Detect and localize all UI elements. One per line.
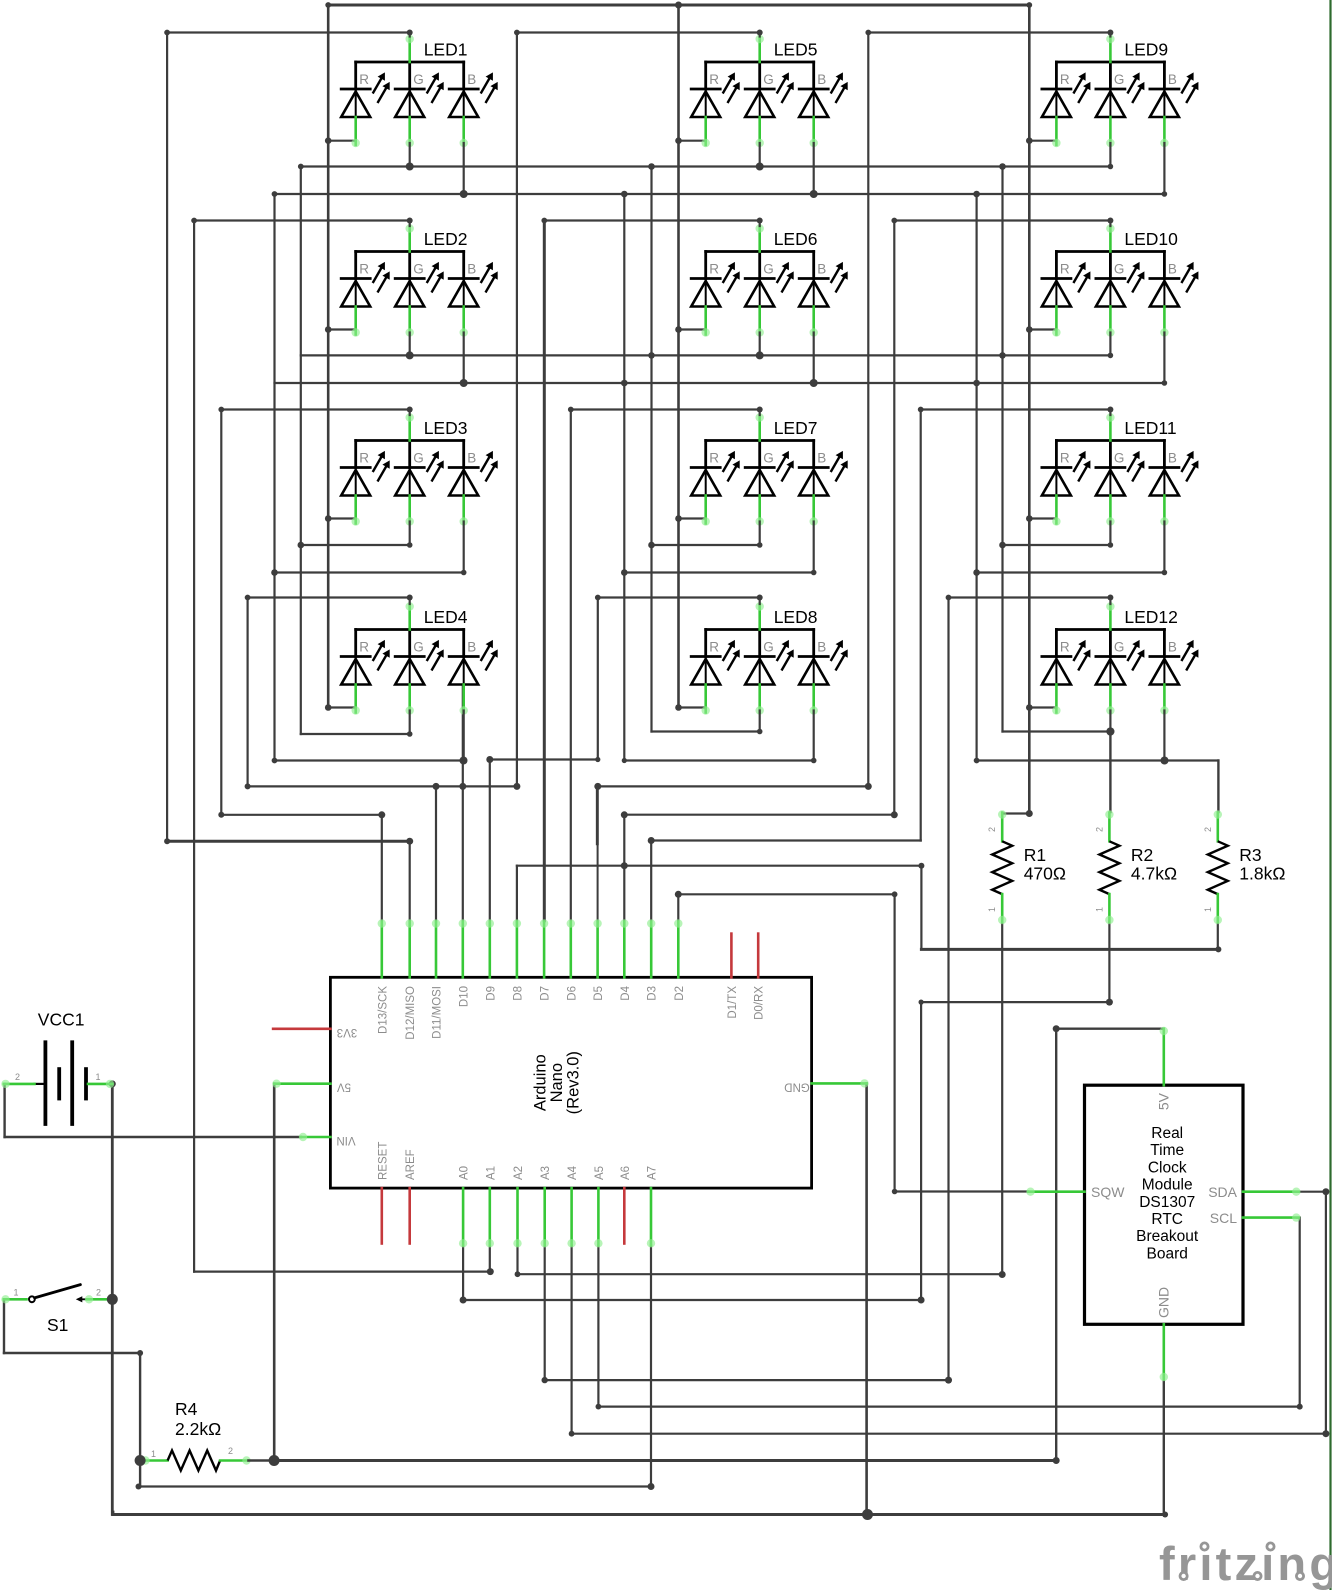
svg-text:LED8: LED8 <box>774 607 818 627</box>
wire net D11 D10 LED4 LED5 <box>248 785 517 787</box>
wire stub <box>596 786 599 843</box>
svg-text:R3: R3 <box>1239 845 1261 865</box>
svg-text:Nano: Nano <box>548 1063 566 1102</box>
svg-text:D7: D7 <box>540 986 552 1001</box>
svg-text:(Rev3.0): (Rev3.0) <box>565 1051 583 1114</box>
junction <box>621 569 628 576</box>
junction <box>675 2 682 9</box>
wire SDA link <box>1299 1191 1326 1193</box>
svg-text:A0: A0 <box>459 1166 471 1180</box>
wire G-chain col2 <box>650 167 652 732</box>
wire GND bus bottom <box>113 1513 1165 1516</box>
junction <box>459 783 466 790</box>
svg-text:LED10: LED10 <box>1124 229 1178 249</box>
wire LED5 common drop <box>516 33 518 787</box>
junction <box>1297 1404 1303 1410</box>
svg-text:3V3: 3V3 <box>337 1026 357 1038</box>
junction <box>298 542 305 549</box>
svg-text:A6: A6 <box>620 1166 632 1180</box>
wire R1 to A2 drop <box>1001 922 1003 1275</box>
wire 5V to R4 drop <box>273 1084 276 1461</box>
wire B lead ext <box>1163 711 1165 761</box>
wire G-chain col3 <box>1001 167 1003 732</box>
wire A1 drop <box>489 1245 491 1271</box>
junction <box>461 570 467 576</box>
junction corner <box>865 30 871 36</box>
svg-text:B: B <box>1168 640 1177 655</box>
wire G lead ext <box>1109 711 1111 732</box>
svg-text:G: G <box>763 451 774 466</box>
wire LED10 common drop <box>893 221 895 815</box>
wire common elbow <box>894 219 1110 221</box>
svg-text:G: G <box>763 72 774 87</box>
junction corner <box>164 30 170 36</box>
junction <box>675 704 682 711</box>
junction <box>1162 191 1168 197</box>
svg-text:B: B <box>1168 451 1177 466</box>
wire common elbow <box>598 596 760 598</box>
svg-text:2: 2 <box>1203 827 1213 832</box>
svg-text:2.2kΩ: 2.2kΩ <box>175 1419 221 1439</box>
wire net D8 R3 <box>517 865 922 867</box>
wire R-bus top <box>328 4 1029 7</box>
wire common elbow <box>868 31 1110 33</box>
wire common stub <box>409 33 411 37</box>
wire common elbow <box>221 408 409 410</box>
wire corner stub <box>112 1512 115 1515</box>
wire LED8 common drop <box>597 598 599 760</box>
wire G to R2 <box>1109 732 1111 813</box>
svg-text:B: B <box>1168 72 1177 87</box>
resistor R3 <box>1203 810 1286 924</box>
rgb-led LED4 <box>341 602 498 714</box>
junction <box>621 380 628 387</box>
wire R2 pin1 drop <box>1108 922 1110 1002</box>
wire B lead ext <box>1163 333 1165 384</box>
wire R elbow <box>679 706 706 708</box>
wire net A3 LED12 <box>545 1379 949 1381</box>
junction corner <box>541 218 547 224</box>
wire B-bus row3 col1 <box>275 571 464 573</box>
wire G lead ext <box>759 333 761 356</box>
wire G-bus row4 col3 <box>1003 730 1111 732</box>
junction <box>407 30 413 36</box>
wire G lead ext <box>409 333 411 356</box>
wire SQW link <box>895 1190 1029 1192</box>
wire D2 drop to SQW <box>893 894 895 1191</box>
svg-text:LED9: LED9 <box>1124 40 1168 60</box>
wire common stub <box>409 221 411 227</box>
junction <box>595 757 600 762</box>
junction <box>1108 353 1114 359</box>
junction <box>1162 1512 1168 1518</box>
svg-text:D0/RX: D0/RX <box>754 986 766 1020</box>
junction <box>811 758 817 764</box>
junction <box>1107 407 1113 413</box>
junction <box>1162 380 1168 386</box>
svg-text:G: G <box>413 640 424 655</box>
wire R elbow <box>679 517 706 519</box>
svg-text:S1: S1 <box>47 1315 68 1335</box>
wire A7 drop <box>650 1245 652 1486</box>
svg-text:GND: GND <box>784 1080 810 1092</box>
junction corner <box>596 1404 602 1410</box>
junction corner <box>891 218 897 224</box>
junction corner <box>946 595 952 601</box>
junction <box>892 1189 898 1195</box>
rgb-led LED6 <box>691 224 848 336</box>
wire G lead ext <box>759 711 761 732</box>
junction S1 pin2 <box>107 1294 118 1305</box>
wire VIN link <box>5 1136 301 1138</box>
svg-text:SDA: SDA <box>1208 1184 1237 1200</box>
svg-text:Clock: Clock <box>1148 1159 1187 1176</box>
junction <box>1026 326 1033 333</box>
wire B-chain col3 <box>975 194 977 761</box>
junction <box>1107 218 1113 224</box>
rgb-led LED2 <box>341 224 498 336</box>
junction R4 pin1 <box>135 1455 146 1466</box>
svg-text:LED5: LED5 <box>774 40 818 60</box>
wire R3 bottom bus <box>921 948 1218 951</box>
wire G-bus row3 col2 <box>652 544 760 546</box>
wire common elbow <box>248 596 410 598</box>
svg-text:B: B <box>817 72 826 87</box>
junction <box>675 137 682 144</box>
junction <box>675 515 682 522</box>
junction <box>973 569 980 576</box>
junction <box>1106 999 1113 1006</box>
svg-text:2: 2 <box>1094 827 1104 832</box>
svg-text:B: B <box>467 72 476 87</box>
wire common stub <box>1109 221 1111 227</box>
svg-text:R: R <box>709 72 719 87</box>
junction <box>1026 810 1033 817</box>
wire common stub <box>1109 598 1111 605</box>
wire common stub <box>409 410 411 416</box>
svg-text:Board: Board <box>1147 1245 1188 1262</box>
wire A0 drop <box>462 1245 464 1300</box>
wire B row4 col3 to R3 <box>977 759 1219 761</box>
svg-text:LED12: LED12 <box>1124 607 1178 627</box>
wire GND drop <box>865 1083 868 1514</box>
wire G-bus row2 <box>301 354 1111 356</box>
junction <box>1108 164 1114 170</box>
junction <box>245 783 251 789</box>
svg-text:R: R <box>359 262 369 277</box>
rgb-led LED7 <box>691 413 848 525</box>
wire R2 elbow <box>921 1001 1109 1003</box>
svg-text:B: B <box>467 451 476 466</box>
wire R elbow <box>328 517 356 519</box>
junction <box>811 570 817 576</box>
wire SDA drop <box>1325 1192 1327 1434</box>
svg-text:A1: A1 <box>485 1166 497 1180</box>
wire battery plus to S1 to GND <box>111 1084 114 1515</box>
wire G lead ext <box>1109 333 1111 356</box>
junction <box>865 783 872 790</box>
junction <box>378 811 385 818</box>
svg-text:R: R <box>709 451 719 466</box>
switch S1 <box>1 1285 112 1335</box>
svg-text:B: B <box>817 451 826 466</box>
junction corner <box>245 595 251 601</box>
junction <box>757 30 763 36</box>
junction <box>1053 1457 1060 1464</box>
wire common elbow <box>544 219 759 221</box>
junction <box>648 352 655 359</box>
wire R elbow <box>1029 517 1056 519</box>
junction <box>513 783 520 790</box>
wire D9 drop <box>489 760 491 922</box>
junction <box>594 783 601 790</box>
svg-text:B: B <box>817 640 826 655</box>
junction <box>675 326 682 333</box>
svg-text:SQW: SQW <box>1091 1184 1125 1200</box>
wire LED12 common drop to A3 <box>947 598 949 1381</box>
junction <box>862 1509 873 1520</box>
svg-text:LED7: LED7 <box>774 418 818 438</box>
wire LED3 common drop <box>220 410 222 815</box>
junction <box>542 1377 548 1383</box>
svg-text:5V: 5V <box>1156 1092 1172 1110</box>
wire B row4 col2 <box>624 759 813 761</box>
wire D11 drop <box>435 786 437 921</box>
svg-text:R: R <box>359 451 369 466</box>
svg-text:Module: Module <box>1142 1177 1193 1194</box>
junction corner <box>218 407 224 413</box>
junction <box>406 163 414 171</box>
svg-text:D12/MISO: D12/MISO <box>405 986 417 1040</box>
svg-text:G: G <box>1114 451 1125 466</box>
svg-text:A5: A5 <box>594 1166 606 1180</box>
junction <box>407 595 413 601</box>
svg-text:D4: D4 <box>620 985 632 1000</box>
svg-text:1.8kΩ: 1.8kΩ <box>1239 864 1285 884</box>
junction <box>325 137 332 144</box>
svg-text:D3: D3 <box>647 986 659 1001</box>
wire D3 drop <box>650 841 652 922</box>
svg-text:470Ω: 470Ω <box>1024 864 1066 884</box>
junction corner <box>1026 2 1032 8</box>
wire R elbow <box>1029 706 1056 708</box>
junction <box>136 1484 142 1490</box>
svg-text:1: 1 <box>987 907 997 912</box>
junction <box>406 838 413 845</box>
junction <box>973 191 980 198</box>
wire common stub <box>409 598 411 605</box>
svg-text:SCL: SCL <box>1210 1210 1237 1226</box>
svg-text:G: G <box>1114 640 1125 655</box>
junction <box>757 729 763 735</box>
junction corner <box>272 758 278 764</box>
wire B-bus row1 <box>275 193 1165 195</box>
wire R4 pin1 vertical <box>139 1353 141 1487</box>
wire G-bus row4 col1 <box>301 733 410 735</box>
wire net A7 R4 <box>139 1485 652 1487</box>
wire A3 drop <box>544 1245 546 1380</box>
junction <box>918 863 924 869</box>
wire common stub <box>759 221 761 227</box>
junction corner <box>918 407 924 413</box>
wire net A0 R2 <box>463 1299 921 1301</box>
junction <box>1106 728 1114 736</box>
svg-text:A2: A2 <box>513 1166 525 1180</box>
junction <box>621 191 628 198</box>
svg-text:VIN: VIN <box>336 1134 355 1146</box>
svg-text:4.7kΩ: 4.7kΩ <box>1131 864 1177 884</box>
junction <box>810 190 818 198</box>
svg-text:2: 2 <box>15 1072 20 1082</box>
wire G lead ext <box>409 143 411 167</box>
wire S1 pin1 drop <box>3 1299 5 1353</box>
svg-text:D9: D9 <box>485 986 497 1001</box>
resistor R1 <box>987 810 1066 924</box>
junction <box>1106 728 1114 736</box>
junction <box>1026 515 1033 522</box>
junction <box>757 542 763 548</box>
svg-text:B: B <box>467 640 476 655</box>
resistor R2 <box>1094 810 1177 924</box>
rgb-led LED12 <box>1042 602 1199 714</box>
wire LED4 common drop <box>247 598 249 787</box>
svg-text:5V: 5V <box>337 1081 351 1093</box>
wire R3 pin1 drop <box>1217 922 1219 950</box>
svg-text:R: R <box>1060 451 1070 466</box>
junction <box>999 542 1006 549</box>
wire net D9 LED8 <box>490 758 598 760</box>
junction corner <box>569 1431 575 1437</box>
svg-text:G: G <box>763 262 774 277</box>
svg-text:2: 2 <box>987 827 997 832</box>
junction <box>973 380 980 387</box>
junction corner <box>325 2 331 8</box>
junction <box>433 783 440 790</box>
svg-text:1: 1 <box>14 1288 19 1298</box>
junction corner <box>191 218 197 224</box>
junction <box>109 1080 116 1087</box>
junction <box>1107 30 1113 36</box>
svg-text:1: 1 <box>1094 907 1104 912</box>
wire G-bus row3 col3 <box>1003 544 1111 546</box>
wire SCL drop <box>1299 1218 1301 1407</box>
junction <box>137 1350 143 1356</box>
svg-text:D13/SCK: D13/SCK <box>377 986 389 1034</box>
wire RTC 5V link <box>1056 1027 1164 1029</box>
wire LED6 common drop to D7 <box>543 221 546 921</box>
wire net A5 SCL <box>598 1405 1299 1407</box>
wire common elbow <box>517 31 760 33</box>
wire R elbow <box>328 140 356 142</box>
wire G lead ext <box>409 522 411 546</box>
wire G lead ext <box>759 143 761 167</box>
junction <box>621 862 628 869</box>
svg-text:DS1307: DS1307 <box>1139 1194 1195 1211</box>
svg-text:R: R <box>1060 262 1070 277</box>
junction <box>1053 1025 1060 1032</box>
junction <box>325 515 332 522</box>
wire common elbow <box>949 596 1111 598</box>
wire D4 drop <box>623 815 625 922</box>
wire LED2 common drop <box>193 221 195 1272</box>
rgb-led LED8 <box>691 602 848 714</box>
junction <box>460 190 468 198</box>
junction <box>999 163 1006 170</box>
junction <box>648 163 655 170</box>
svg-text:R2: R2 <box>1131 845 1153 865</box>
junction <box>406 351 414 359</box>
wire G lead ext <box>409 711 411 735</box>
svg-text:Arduino: Arduino <box>532 1054 550 1111</box>
svg-text:B: B <box>467 262 476 277</box>
svg-text:R: R <box>709 262 719 277</box>
wire R elbow <box>1029 140 1056 142</box>
junction <box>621 811 628 818</box>
junction <box>622 758 627 763</box>
wire B-bus row3 col2 <box>624 571 813 573</box>
svg-text:1: 1 <box>96 1072 101 1082</box>
svg-text:G: G <box>763 640 774 655</box>
junction <box>1322 1188 1329 1195</box>
wire R elbow <box>679 328 706 330</box>
rgb-led LED5 <box>691 35 848 147</box>
wire G-bus row3 col1 <box>301 544 410 546</box>
junction <box>460 379 468 387</box>
svg-text:1: 1 <box>1203 907 1213 912</box>
wire R-chain col1 <box>327 5 330 708</box>
wire R elbow <box>1029 328 1056 330</box>
svg-text:Time: Time <box>1150 1142 1184 1159</box>
svg-text:R: R <box>359 72 369 87</box>
svg-text:2: 2 <box>228 1446 233 1456</box>
rtc-module DS1307 <box>1026 1027 1300 1381</box>
wire net D13 LED3 <box>221 814 381 816</box>
junction <box>675 891 682 898</box>
svg-text:G: G <box>1114 72 1125 87</box>
wire D5 drop <box>597 786 599 921</box>
svg-text:1: 1 <box>151 1449 156 1459</box>
junction <box>325 326 332 333</box>
wire B lead ext <box>813 143 815 194</box>
wire net R4 to RTC5V <box>274 1459 1056 1462</box>
junction <box>460 1297 467 1304</box>
junction <box>271 569 278 576</box>
svg-text:R1: R1 <box>1024 845 1046 865</box>
junction <box>1161 757 1169 765</box>
wire battery minus drop <box>3 1084 5 1137</box>
junction <box>919 1000 924 1005</box>
svg-text:LED2: LED2 <box>424 229 468 249</box>
junction <box>757 595 763 601</box>
svg-text:frıtzıng: frıtzıng <box>1159 1537 1332 1590</box>
wire B lead ext <box>1163 522 1165 573</box>
junction corner <box>568 407 574 413</box>
wire R-chain col2 <box>677 5 680 708</box>
junction R4 pin2 <box>269 1455 280 1466</box>
wire R3 bottom drop <box>920 866 922 950</box>
battery VCC1 <box>1 1010 114 1125</box>
wire R-chain col3 lower <box>1028 708 1031 814</box>
svg-text:Real: Real <box>1151 1125 1183 1142</box>
wire common elbow <box>571 408 760 410</box>
wire R-chain col3 <box>1028 5 1031 708</box>
junction corner <box>974 758 980 764</box>
wire common stub <box>759 598 761 605</box>
wire common stub <box>1109 410 1111 416</box>
junction corner <box>272 191 278 197</box>
wire G lead ext <box>1109 522 1111 546</box>
wire G lead ext <box>1109 143 1111 167</box>
